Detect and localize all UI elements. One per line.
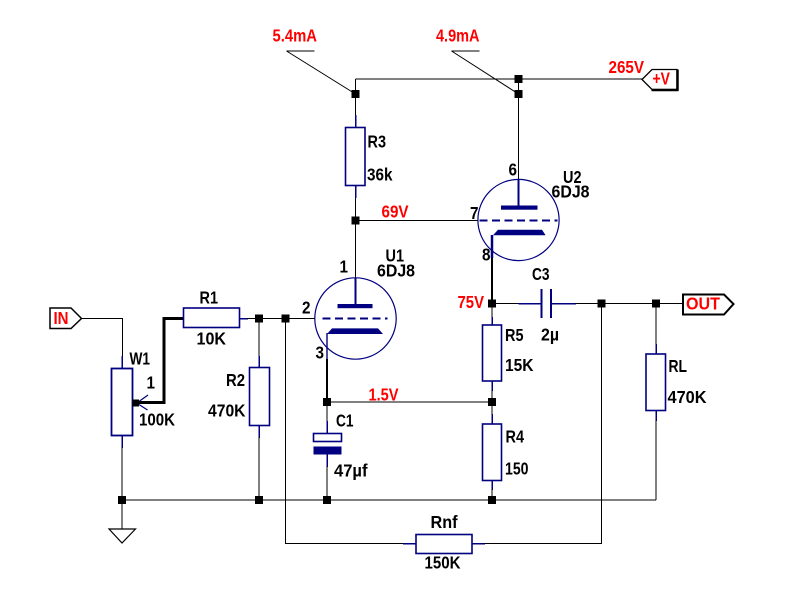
pointer line 5.4mA: [287, 51, 356, 94]
wire U2 plate branch: [518, 79, 520, 180]
pointer line 4.9mA: [452, 51, 519, 94]
ground symbol: [109, 500, 136, 543]
node 69V wire to U2 grid: [356, 220, 479, 222]
svg-text:2: 2: [302, 298, 311, 318]
svg-text:6DJ8: 6DJ8: [552, 182, 590, 202]
svg-text:47µf: 47µf: [334, 461, 368, 481]
potentiometer W1: [112, 356, 149, 448]
power tag +V: [642, 69, 679, 91]
wire U1 plate branch: [355, 221, 357, 279]
tube U1 6DJ8: [315, 278, 396, 360]
wire W1 bottom to ground rail: [121, 447, 123, 500]
svg-text:R1: R1: [200, 288, 219, 308]
svg-text:265V: 265V: [609, 57, 645, 77]
wire U1 cathode to 1.5V node: [326, 359, 328, 402]
wire C3 to OUT: [575, 303, 683, 305]
resistor R3: [346, 115, 366, 198]
svg-text:7: 7: [470, 203, 479, 223]
svg-text:5.4mA: 5.4mA: [273, 26, 318, 46]
svg-text:1: 1: [340, 257, 349, 277]
junction U2 branch (4.9mA probe): [515, 90, 523, 98]
junction 1.5V left: [323, 398, 331, 406]
wire feedback from grid node down: [286, 319, 405, 544]
svg-text:2µ: 2µ: [541, 325, 559, 345]
svg-text:R3: R3: [368, 132, 387, 152]
resistor Rnf: [403, 535, 485, 554]
capacitor C3: [492, 289, 576, 318]
junction OUT/RL: [652, 300, 660, 308]
svg-text:OUT: OUT: [686, 294, 720, 314]
wire W1 wiper to R1 (thick): [139, 319, 184, 403]
svg-text:150K: 150K: [425, 553, 461, 573]
junction ground R2: [255, 496, 263, 504]
svg-text:R2: R2: [226, 370, 245, 390]
resistor R5: [483, 304, 502, 403]
junction ground W1: [118, 496, 126, 504]
junction 1.5V right: [488, 398, 496, 406]
wire R3 top branch: [355, 79, 357, 117]
junction OUT/Rnf: [598, 300, 606, 308]
svg-text:RL: RL: [669, 356, 688, 376]
svg-text:R5: R5: [505, 325, 524, 345]
svg-text:6: 6: [509, 160, 518, 180]
resistor R1: [184, 308, 249, 328]
junction ground C1: [323, 496, 331, 504]
svg-text:100K: 100K: [139, 410, 175, 430]
resistor R2: [250, 319, 270, 501]
svg-text:150: 150: [505, 459, 529, 479]
op tube U2 6DJ8: [478, 179, 559, 260]
resistor RL: [646, 304, 666, 501]
svg-text:+V: +V: [653, 69, 671, 89]
port tag IN: [50, 308, 82, 329]
wire U2 cathode to 75V node: [491, 258, 493, 304]
svg-text:75V: 75V: [458, 292, 485, 312]
junction U2 branch on rail: [515, 75, 523, 83]
svg-text:470K: 470K: [668, 387, 707, 407]
junction R2 top: [255, 315, 263, 323]
svg-text:69V: 69V: [382, 202, 409, 222]
wire Rnf to OUT node: [484, 304, 602, 544]
svg-text:470K: 470K: [208, 401, 246, 421]
wire R3 bottom to 69V node: [355, 196, 357, 221]
svg-text:8: 8: [482, 245, 491, 265]
svg-text:15K: 15K: [505, 355, 534, 375]
svg-text:10K: 10K: [197, 329, 227, 349]
node 75V junction: [488, 300, 496, 308]
svg-text:C1: C1: [336, 411, 354, 431]
svg-text:1.5V: 1.5V: [369, 385, 399, 405]
wire IN to W1: [82, 319, 123, 358]
ground rail wire: [122, 499, 656, 501]
svg-text:4.9mA: 4.9mA: [436, 26, 480, 46]
wire +V top rail: [356, 78, 643, 80]
svg-text:1: 1: [147, 373, 156, 393]
port tag OUT: [683, 294, 734, 315]
svg-text:IN: IN: [54, 308, 69, 328]
svg-text:36k: 36k: [367, 165, 393, 185]
junction 69V node: [352, 217, 360, 225]
junction ground R4: [488, 496, 496, 504]
svg-text:W1: W1: [130, 349, 151, 369]
capacitor C1: [314, 402, 342, 500]
junction feedback takeoff: [282, 315, 290, 323]
junction on R3 branch (5.4mA probe): [352, 90, 360, 98]
svg-text:C3: C3: [532, 264, 550, 284]
svg-text:Rnf: Rnf: [431, 512, 458, 532]
resistor R4: [483, 402, 502, 500]
svg-text:R4: R4: [506, 427, 525, 447]
node 1.5V wire: [327, 401, 492, 403]
wire R1 to U1 grid: [247, 318, 315, 320]
svg-text:6DJ8: 6DJ8: [377, 261, 415, 281]
svg-text:3: 3: [316, 343, 325, 363]
